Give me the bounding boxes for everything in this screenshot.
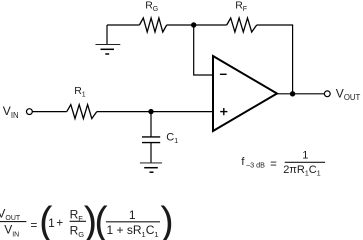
wire: node B down to C1 <box>150 112 152 137</box>
svg-text:–3 dB: –3 dB <box>246 160 265 169</box>
svg-text:2πR1C1: 2πR1C1 <box>283 164 321 178</box>
resistor RG <box>139 18 166 32</box>
ground G2 (below C1) <box>140 163 162 172</box>
svg-text:1 + sR1C1: 1 + sR1C1 <box>107 223 159 239</box>
formula transfer fn: VOUT/VIN bar <box>0 221 26 223</box>
svg-text:1: 1 <box>48 216 55 230</box>
formula transfer fn: bar <box>106 221 160 223</box>
op-amp U1 <box>213 56 277 131</box>
node A (feedback junction dot) <box>191 22 196 27</box>
terminal VOUT (open circle) <box>324 91 330 97</box>
resistor R1 <box>67 105 97 119</box>
wire: op-amp output to VOUT <box>277 93 324 95</box>
wire: R1 to non-inverting input <box>97 111 213 113</box>
wire: ground to RG <box>107 24 139 26</box>
node B (+ input junction dot) <box>148 109 153 114</box>
svg-text:1: 1 <box>302 150 308 162</box>
wire: C1 to ground <box>150 143 152 163</box>
svg-text:=: = <box>270 158 277 170</box>
svg-text:1: 1 <box>129 208 136 222</box>
op-amp minus sign <box>220 73 227 75</box>
wire: VIN to R1 <box>32 111 67 113</box>
op-amp plus sign <box>220 108 227 115</box>
svg-text:+: + <box>56 216 63 230</box>
capacitor C1 <box>142 137 160 143</box>
wire: RG to node A <box>167 24 194 26</box>
wire: node A down to inverting input <box>194 25 213 75</box>
terminal VIN (open circle) <box>27 109 33 115</box>
ground G1 (top-left) <box>96 25 121 54</box>
formula transfer fn: RF/RG bar <box>70 220 86 222</box>
formula f-3dB: fraction bar <box>285 161 325 163</box>
wire: node A to RF <box>194 24 227 26</box>
node C (output junction dot) <box>290 91 295 96</box>
svg-text:=: = <box>30 218 37 232</box>
wire: RF to output (top-right corner, down) <box>257 25 293 94</box>
resistor RF <box>227 18 257 32</box>
svg-text:): ) <box>160 199 173 240</box>
